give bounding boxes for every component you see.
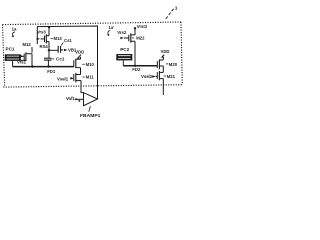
svg-text:Vrs2: Vrs2 (117, 30, 127, 35)
svg-text:M13: M13 (54, 36, 63, 41)
node FD1 bus (13, 65, 74, 73)
svg-text:M22: M22 (136, 36, 145, 41)
svg-text:M11: M11 (86, 75, 95, 80)
svg-text:FD2: FD2 (132, 67, 141, 72)
VDD supply arrow (left cell) (75, 50, 84, 59)
svg-text:Vsel1: Vsel1 (57, 77, 69, 82)
svg-text:PC2: PC2 (120, 47, 129, 52)
capacitor Cs1 to VB1 (48, 38, 77, 53)
VDD supply arrow (right cell) (161, 49, 170, 58)
svg-text:VDD: VDD (75, 50, 84, 55)
reset transistor M22 (117, 30, 145, 66)
feedback node RS4: top rail from M13 drain to amp output riser (37, 26, 98, 99)
reference numeral 1 with dashed leader (166, 6, 178, 19)
gate input Vsel2 (141, 74, 157, 79)
svg-text:Vof1: Vof1 (66, 96, 76, 101)
cell label 1a' with hook arrow (107, 25, 114, 35)
svg-text:Vrs1: Vrs1 (17, 60, 27, 65)
photodiode PC2 (116, 47, 132, 66)
svg-text:Cs1: Cs1 (64, 38, 72, 43)
svg-text:M12: M12 (23, 42, 32, 47)
svg-text:Vrst2: Vrst2 (137, 24, 148, 29)
svg-text:RS4: RS4 (40, 44, 49, 49)
svg-text:1: 1 (175, 6, 178, 12)
transfer transistor M12 (21, 42, 33, 67)
gate input Vsel1 (57, 77, 74, 82)
svg-text:Vsel2: Vsel2 (141, 74, 153, 79)
leader from rail down to RS4 label (36, 27, 38, 44)
photodiode PC1 (5, 47, 21, 67)
svg-text:M10: M10 (86, 62, 95, 67)
op-amp FBAMP1 (66, 80, 101, 119)
svg-text:PC1: PC1 (6, 47, 15, 52)
select transistor M11 (74, 73, 94, 82)
svg-text:VDD: VDD (161, 49, 170, 54)
svg-text:M21: M21 (167, 74, 176, 79)
svg-text:Vrs3: Vrs3 (37, 29, 47, 34)
gate input Vrs1 (17, 55, 27, 65)
svg-text:FBAMP1: FBAMP1 (80, 113, 101, 119)
svg-text:FD1: FD1 (47, 69, 56, 74)
junction arrowhead on rail at M13 drain (48, 27, 51, 30)
cell label 1a with hook arrow (12, 27, 17, 37)
svg-text:1a': 1a' (108, 25, 114, 30)
reset transistor M13 (37, 26, 63, 58)
dotted sensor boundary box 1 (3, 22, 183, 87)
reset voltage Vrst2 (134, 24, 148, 35)
source follower M10 (74, 57, 95, 75)
svg-text:M20: M20 (169, 62, 178, 67)
svg-text:Cc1: Cc1 (56, 57, 65, 62)
capacitor Cc1 (44, 57, 65, 67)
node FD2 bus (123, 65, 157, 72)
select transistor M21 (157, 71, 175, 95)
source follower M20 (157, 57, 177, 72)
svg-text:1a: 1a (12, 27, 17, 32)
